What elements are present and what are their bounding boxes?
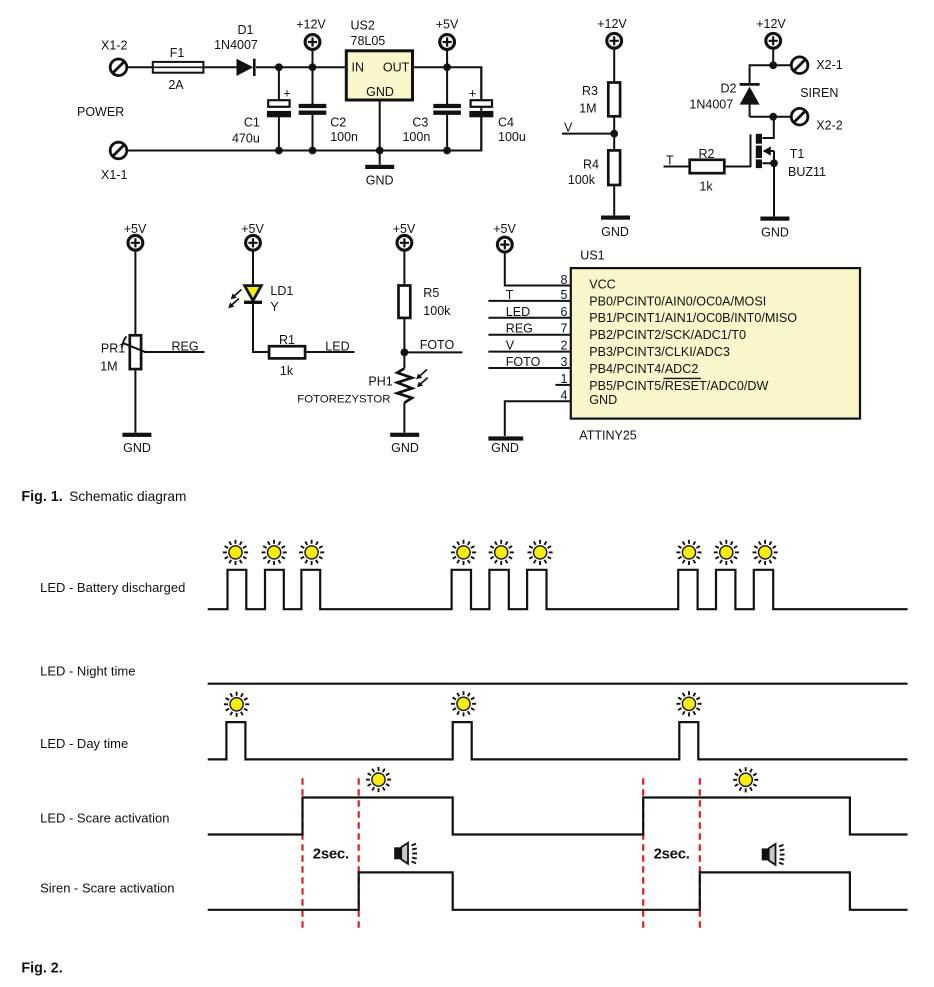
svg-text:7: 7 bbox=[560, 322, 567, 336]
svg-text:D1: D1 bbox=[238, 23, 254, 37]
svg-text:78L05: 78L05 bbox=[351, 34, 386, 48]
svg-text:5: 5 bbox=[560, 288, 567, 302]
svg-text:GND: GND bbox=[491, 441, 519, 455]
svg-text:OUT: OUT bbox=[383, 61, 410, 75]
svg-text:GND: GND bbox=[123, 441, 151, 455]
svg-text:FOTO: FOTO bbox=[420, 338, 455, 352]
svg-text:LED - Battery discharged: LED - Battery discharged bbox=[40, 580, 185, 595]
svg-text:T1: T1 bbox=[790, 147, 805, 161]
svg-text:REG: REG bbox=[172, 339, 199, 353]
svg-text:+5V: +5V bbox=[493, 222, 516, 236]
svg-text:1k: 1k bbox=[280, 364, 294, 378]
svg-text:T: T bbox=[506, 288, 514, 302]
svg-text:PB1/PCINT1/AIN1/OC0B/INT0/MISO: PB1/PCINT1/AIN1/OC0B/INT0/MISO bbox=[589, 311, 797, 325]
svg-text:SIREN: SIREN bbox=[800, 86, 838, 100]
svg-text:1M: 1M bbox=[100, 359, 117, 373]
svg-text:GND: GND bbox=[761, 225, 789, 239]
svg-text:FOTOREZYSTOR: FOTOREZYSTOR bbox=[297, 393, 390, 405]
svg-text:+12V: +12V bbox=[296, 18, 326, 32]
svg-text:100n: 100n bbox=[402, 130, 430, 144]
svg-text:C3: C3 bbox=[412, 115, 428, 129]
svg-text:LD1: LD1 bbox=[270, 284, 293, 298]
svg-text:PH1: PH1 bbox=[368, 374, 392, 388]
svg-text:FOTO: FOTO bbox=[506, 355, 541, 369]
svg-text:470u: 470u bbox=[232, 132, 260, 146]
svg-text:+12V: +12V bbox=[756, 17, 786, 31]
svg-text:2A: 2A bbox=[168, 78, 184, 92]
svg-text:1k: 1k bbox=[699, 180, 713, 194]
svg-text:LED - Day time: LED - Day time bbox=[40, 736, 128, 751]
svg-text:ATTINY25: ATTINY25 bbox=[579, 428, 636, 442]
svg-text:BUZ11: BUZ11 bbox=[788, 165, 826, 179]
svg-text:LED - Scare activation: LED - Scare activation bbox=[40, 810, 169, 825]
svg-text:R5: R5 bbox=[423, 286, 439, 300]
svg-text:1: 1 bbox=[560, 372, 567, 386]
svg-text:IN: IN bbox=[352, 61, 365, 75]
svg-text:GND: GND bbox=[601, 225, 629, 239]
svg-text:R3: R3 bbox=[582, 84, 598, 98]
svg-text:+5V: +5V bbox=[124, 222, 147, 236]
svg-text:100k: 100k bbox=[423, 304, 451, 318]
svg-text:GND: GND bbox=[366, 85, 394, 99]
svg-text:Fig. 1.: Fig. 1. bbox=[21, 489, 62, 505]
svg-text:2: 2 bbox=[560, 339, 567, 353]
svg-text:+5V: +5V bbox=[436, 18, 459, 32]
svg-text:X1-1: X1-1 bbox=[101, 168, 127, 182]
svg-text:+: + bbox=[283, 87, 290, 101]
svg-text:PB5/PCINT5/RESET/ADC0/DW: PB5/PCINT5/RESET/ADC0/DW bbox=[589, 379, 768, 393]
svg-text:4: 4 bbox=[560, 388, 567, 402]
svg-text:PB4/PCINT4/ADC2: PB4/PCINT4/ADC2 bbox=[589, 362, 698, 376]
svg-text:X2-1: X2-1 bbox=[816, 58, 842, 72]
svg-text:REG: REG bbox=[506, 322, 533, 336]
svg-text:R1: R1 bbox=[279, 333, 295, 347]
svg-text:X2-2: X2-2 bbox=[816, 119, 842, 133]
svg-text:US2: US2 bbox=[351, 19, 375, 33]
svg-text:+5V: +5V bbox=[241, 222, 264, 236]
svg-text:VCC: VCC bbox=[589, 278, 616, 292]
svg-text:+: + bbox=[469, 87, 476, 101]
svg-text:D2: D2 bbox=[721, 82, 737, 96]
svg-text:C1: C1 bbox=[244, 115, 260, 129]
svg-text:1N4007: 1N4007 bbox=[689, 98, 733, 112]
svg-text:PB0/PCINT0/AIN0/OC0A/MOSI: PB0/PCINT0/AIN0/OC0A/MOSI bbox=[589, 294, 766, 308]
svg-text:US1: US1 bbox=[580, 249, 604, 263]
svg-text:6: 6 bbox=[560, 305, 567, 319]
svg-text:LED: LED bbox=[325, 339, 349, 353]
svg-text:Y: Y bbox=[270, 300, 279, 314]
svg-text:V: V bbox=[564, 121, 573, 135]
svg-text:100n: 100n bbox=[330, 130, 358, 144]
svg-text:GND: GND bbox=[366, 174, 394, 188]
svg-text:GND: GND bbox=[589, 393, 617, 407]
svg-text:LED: LED bbox=[506, 305, 530, 319]
svg-text:8: 8 bbox=[560, 273, 567, 287]
svg-text:LED - Night time: LED - Night time bbox=[40, 664, 135, 679]
svg-text:+12V: +12V bbox=[597, 17, 627, 31]
svg-text:GND: GND bbox=[391, 441, 419, 455]
svg-text:2sec.: 2sec. bbox=[654, 845, 690, 862]
svg-text:Schematic diagram: Schematic diagram bbox=[69, 489, 186, 504]
svg-text:3: 3 bbox=[560, 355, 567, 369]
svg-text:PR1: PR1 bbox=[101, 341, 125, 355]
svg-text:C2: C2 bbox=[330, 115, 346, 129]
svg-text:Siren - Scare activation: Siren - Scare activation bbox=[40, 880, 174, 895]
svg-text:X1-2: X1-2 bbox=[101, 39, 127, 53]
svg-text:F1: F1 bbox=[170, 46, 185, 60]
svg-text:+5V: +5V bbox=[393, 222, 416, 236]
svg-text:1M: 1M bbox=[579, 102, 596, 116]
svg-text:V: V bbox=[506, 339, 515, 353]
svg-text:C4: C4 bbox=[498, 115, 514, 129]
svg-text:2sec.: 2sec. bbox=[313, 845, 349, 862]
svg-text:1N4007: 1N4007 bbox=[214, 38, 258, 52]
svg-text:Fig. 2.: Fig. 2. bbox=[21, 960, 62, 976]
svg-text:PB3/PCINT3/CLKI/ADC3: PB3/PCINT3/CLKI/ADC3 bbox=[589, 345, 730, 359]
svg-text:T: T bbox=[666, 154, 674, 168]
svg-text:100k: 100k bbox=[568, 173, 596, 187]
svg-text:PB2/PCINT2/SCK/ADC1/T0: PB2/PCINT2/SCK/ADC1/T0 bbox=[589, 328, 746, 342]
svg-text:100u: 100u bbox=[498, 130, 526, 144]
svg-text:POWER: POWER bbox=[77, 105, 124, 119]
svg-text:R2: R2 bbox=[699, 147, 715, 161]
svg-text:R4: R4 bbox=[583, 157, 599, 171]
